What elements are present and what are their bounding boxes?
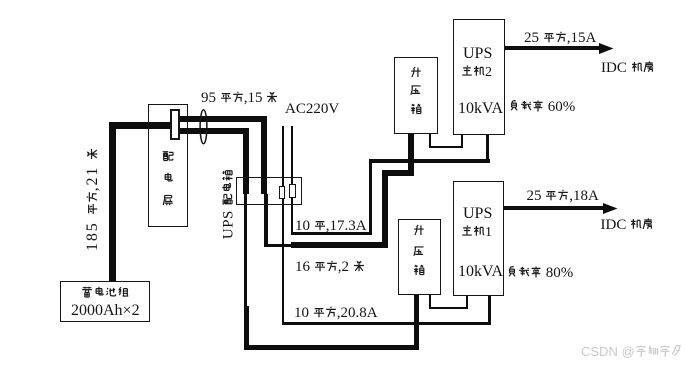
battery box 蓄电池组 (60, 281, 150, 322)
wire vertical x246 lower part (medium) (244, 194, 247, 308)
wire AC line L1 x282 (282, 126, 284, 324)
fuse B (289, 184, 296, 198)
distribution panel 配电屏 box (148, 104, 188, 227)
CT ellipse on 95平方 wire (196, 107, 212, 147)
label 主机2 (461, 65, 492, 80)
label 负载率 80% (506, 266, 573, 281)
wire 20.8A horizontal y324 (282, 322, 490, 325)
wire vertical x385 up (382, 170, 388, 249)
label IDC 机房 (bottom) (601, 218, 655, 233)
label IDC 机房 (top) (601, 61, 655, 76)
breaker on 配电屏 (170, 109, 181, 140)
label 185 平方,21 米 (rotated) (85, 151, 101, 251)
wire horizontal y172 right (382, 170, 414, 176)
label UPS (host1) (463, 206, 492, 222)
label 负载率 60% (508, 100, 575, 115)
label 95 平方,15 米 (201, 91, 278, 106)
wire battery riser vertical (185平方) (109, 122, 116, 281)
label 主机1 (461, 225, 492, 240)
arrow to IDC (bottom) (504, 206, 604, 209)
UPS distribution box UPS配电箱 (236, 177, 302, 205)
label UPS (host2) (463, 46, 492, 62)
wire 17.3A stub up to UPS2 (486, 134, 489, 162)
wire breaker out bottom (to 升压箱1) horizontal y131 (180, 128, 249, 134)
label 10 平方,20.8A (294, 306, 378, 321)
UPS host 1 box (453, 181, 504, 296)
wire vertical x266 down (medium part) (264, 194, 267, 247)
wire vertical x246 bottom part (thick) (244, 306, 250, 350)
wire horizontal y245 right (medium part) (264, 244, 293, 247)
boost box 1 升压箱 (398, 219, 441, 295)
wire vertical x416 up into 升压箱1 (414, 293, 420, 347)
arrow to IDC (top) (505, 46, 600, 49)
fuse A (279, 186, 285, 199)
wire bottom horizontal y347 (244, 345, 419, 351)
label 25 平方,18A (527, 189, 599, 204)
wire vertical x246 down (through UPS配电箱) (243, 128, 249, 194)
label UPS 配电箱 (rotated) (222, 169, 237, 239)
配电屏 label (vertical chars 配 电 屏) (162, 150, 174, 165)
wire 17.3A vertical x370 up (369, 160, 372, 235)
wire horizontal y245 right (thick part) (291, 242, 388, 248)
wire 20.8A stub up to UPS1 (488, 295, 491, 325)
label 2000Ah×2 (71, 303, 140, 319)
label AC220V (285, 102, 339, 117)
wire AC line L2 x292 (291, 126, 293, 234)
wire 17.3A horizontal y233 (291, 232, 371, 235)
label 蓄电池组 (81, 286, 129, 301)
wire vertical x411 up into 升压箱2 (408, 131, 414, 176)
wire 17.3A horizontal y161 right (369, 159, 490, 162)
label 10 平,17.3A (295, 219, 367, 234)
wire breaker out top (to 升压箱2) horizontal y118 (180, 116, 267, 122)
label 16 平方,2 米 (295, 260, 365, 275)
label 10kVA (host2) (458, 101, 503, 117)
wire battery to breaker horizontal (109, 122, 171, 129)
U-wire boost2 to UPS2 (429, 133, 431, 148)
UPS host 2 box (453, 19, 505, 135)
boost box 2 升压箱 (394, 57, 438, 134)
watermark CSDN @宇钏宇夕 (581, 345, 683, 358)
wire vertical x264 down (thick part) (261, 116, 267, 195)
label 10kVA (host1) (458, 264, 503, 280)
label 25 平方,15A (524, 31, 596, 46)
U-wire boost1 to UPS1 (429, 294, 431, 309)
